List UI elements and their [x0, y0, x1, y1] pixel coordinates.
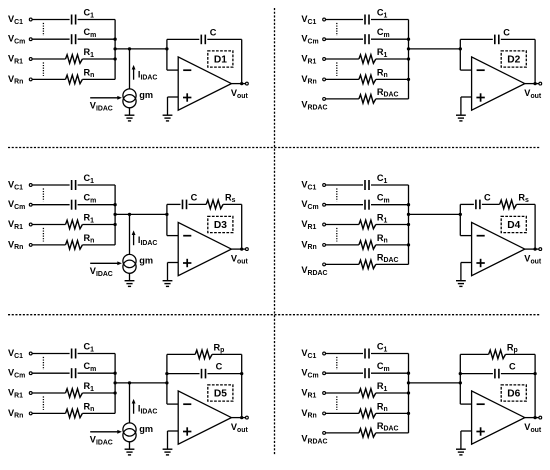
wire Cm to bus (D6) — [371, 372, 409, 374]
svg-text:C: C — [210, 27, 217, 37]
wire VR1 to element (D3) — [32, 224, 65, 226]
capacitor Cm (D2) — [364, 34, 366, 44]
wire VCm to element (D4) — [326, 204, 364, 206]
ground below gm source (D1) — [129, 108, 131, 115]
capacitor C1 (D1) — [71, 15, 73, 25]
input bus wire (D1) — [114, 20, 116, 80]
output wire (D4) — [525, 248, 539, 250]
resistor Rn (D4) — [359, 241, 376, 250]
svg-text:D1: D1 — [214, 55, 227, 66]
resistor Rn (D5) — [66, 409, 83, 418]
wire to inverting input (D6) — [460, 403, 471, 405]
wire VC1 to element (D1) — [32, 19, 70, 21]
feedback junction left (D5) — [165, 372, 168, 375]
plus sign (D5) — [183, 431, 191, 433]
wire R1 to bus (D6) — [376, 392, 409, 394]
feedback resistor Rp wire (D6) — [460, 353, 488, 355]
minus sign (D1) — [183, 69, 191, 71]
output terminal (D2) — [539, 82, 542, 85]
summing node wire (D5) — [115, 382, 167, 384]
op-amp D1 — [178, 57, 231, 110]
wire VR1 to element (D1) — [32, 58, 65, 60]
junction to gm source (D3) — [128, 213, 131, 216]
ellipsis dots between VC1 and VCm (D4) — [336, 188, 338, 201]
op-amp D4 — [472, 222, 525, 275]
wire VCm to element (D5) — [32, 372, 70, 374]
wire R1 to bus (D1) — [82, 58, 115, 60]
minus sign (D3) — [183, 235, 191, 237]
resistor RDAC (D6) — [359, 429, 376, 438]
wire RDAC to bus (D2) — [376, 98, 409, 100]
output terminal (D6) — [539, 416, 542, 419]
transconductor gm source (D1) — [123, 89, 136, 102]
bus junction (D2) — [407, 78, 410, 81]
wire VCm to element (D6) — [326, 372, 364, 374]
wire Rn to bus (D4) — [376, 244, 409, 246]
wire VC1 to element (D5) — [32, 353, 70, 355]
capacitor C1 (D2) — [364, 15, 366, 25]
svg-text:C: C — [503, 27, 510, 37]
bus junction (D3) — [113, 223, 116, 226]
wire to non-inverting input (D1) — [168, 96, 179, 98]
op-amp D6 — [472, 391, 525, 444]
ground at non-inverting input (D5) — [163, 448, 173, 450]
wire to non-inverting input (D3) — [168, 262, 179, 264]
feedback wire top (D3) — [167, 203, 181, 205]
feedback wire left vertical (D2) — [459, 39, 461, 70]
wire R1 to bus (D3) — [82, 224, 115, 226]
current arrow IIDAC (D3) — [133, 234, 135, 245]
op-amp D3 — [178, 222, 231, 275]
wire C1 to bus (D3) — [78, 184, 116, 186]
resistor R1 (D4) — [359, 220, 376, 229]
summing node wire (D1) — [115, 48, 167, 50]
capacitor C1 (D6) — [364, 349, 366, 359]
wire Rn to bus (D6) — [376, 412, 409, 414]
feedback resistor Rs (D4) — [500, 200, 517, 209]
svg-text:D6: D6 — [507, 389, 520, 400]
wire VR1 to element (D4) — [326, 224, 359, 226]
output feedback junction (D6) — [533, 416, 536, 419]
feedback wire top (D4) — [460, 203, 474, 205]
resistor R1 (D2) — [359, 55, 376, 64]
output wire (D5) — [231, 417, 245, 419]
ground at non-inverting input (D1) — [163, 114, 173, 116]
plus sign (D4) — [476, 262, 484, 264]
wire VRn to element (D3) — [32, 244, 65, 246]
bus junction (D4) — [407, 243, 410, 246]
minus sign (D2) — [477, 69, 485, 71]
dashed box label D5 — [208, 385, 233, 401]
ellipsis dots between VC1 and VCm (D1) — [42, 23, 44, 36]
feedback capacitor C wire (D6) — [460, 373, 493, 375]
input bus wire (D6) — [408, 354, 410, 433]
bus junction at summing wire (D4) — [407, 213, 410, 216]
op-amp D5 — [178, 391, 231, 444]
ellipsis dots between VC1 and VCm (D3) — [42, 188, 44, 201]
ground at non-inverting input (D3) — [163, 280, 173, 282]
wire to non-inverting input (D6) — [461, 430, 472, 432]
ground below gm source (D5) — [129, 442, 131, 449]
summing node junction (D3) — [165, 213, 168, 216]
output wire (D2) — [525, 83, 539, 85]
wire VRDAC to element (D2) — [326, 98, 359, 100]
ellipsis dots between VR1 and VRn (D6) — [336, 396, 338, 410]
bus junction (D2) — [407, 38, 410, 41]
capacitor Cm (D5) — [71, 368, 73, 378]
feedback wire right vertical (D1) — [241, 39, 243, 83]
input bus wire (D5) — [114, 354, 116, 414]
wire R1 to bus (D4) — [376, 224, 409, 226]
junction to gm source (D5) — [128, 381, 131, 384]
svg-text:C: C — [216, 362, 223, 372]
svg-text:D4: D4 — [507, 220, 520, 231]
wire Rn to bus (D1) — [82, 78, 115, 80]
bus junction at summing wire (D6) — [407, 381, 410, 384]
bus junction (D4) — [407, 223, 410, 226]
resistor Rn (D6) — [359, 409, 376, 418]
wire C1 to bus (D6) — [371, 353, 409, 355]
resistor Rn (D1) — [66, 75, 83, 84]
plus sign (D6) — [476, 431, 484, 433]
bus junction at summing wire (D2) — [407, 47, 410, 50]
output feedback junction (D1) — [240, 82, 243, 85]
resistor Rn (D3) — [66, 241, 83, 250]
feedback wire left vertical (D5) — [166, 354, 168, 404]
VIDAC input arrow (D3) — [90, 262, 117, 264]
bus junction (D2) — [407, 57, 410, 60]
wire VC1 to element (D2) — [326, 19, 364, 21]
ground at non-inverting input (D6) — [456, 448, 466, 450]
resistor R1 (D5) — [66, 389, 83, 398]
summing node wire (D6) — [409, 382, 461, 384]
current arrow IIDAC (D5) — [133, 403, 135, 414]
bus junction (D3) — [113, 203, 116, 206]
wire to non-inverting input (D4) — [461, 262, 472, 264]
feedback capacitor C (D5) — [201, 369, 203, 379]
wire Rn to bus (D5) — [82, 412, 115, 414]
wire VRn to element (D1) — [32, 78, 65, 80]
wire VCm to element (D1) — [32, 38, 70, 40]
feedback resistor Rp wire (D5) — [167, 353, 195, 355]
wire to inverting input (D2) — [460, 69, 471, 71]
transconductor gm source (D5) — [123, 423, 136, 436]
output terminal (D1) — [246, 82, 249, 85]
feedback junction left (D6) — [459, 372, 462, 375]
output terminal (D4) — [539, 248, 542, 251]
wire VRn to element (D6) — [326, 412, 359, 414]
ellipsis dots between VR1 and VRn (D3) — [42, 228, 44, 242]
input bus wire (D2) — [408, 20, 410, 99]
capacitor Cm (D4) — [364, 200, 366, 210]
wire Cm to bus (D3) — [78, 204, 116, 206]
feedback wire right vertical (D5) — [241, 354, 243, 417]
bus junction at summing wire (D3) — [113, 213, 116, 216]
input bus wire (D4) — [408, 185, 410, 264]
bus junction (D6) — [407, 391, 410, 394]
summing node junction (D5) — [165, 381, 168, 384]
wire VRn to element (D2) — [326, 78, 359, 80]
horizontal dashed divider between row 2 and row 3 — [8, 314, 540, 316]
svg-text:gm: gm — [139, 256, 153, 266]
wire Cm to bus (D2) — [371, 38, 409, 40]
bus junction (D1) — [113, 38, 116, 41]
dashed box label D2 — [501, 51, 526, 67]
wire to inverting input (D5) — [167, 403, 178, 405]
horizontal dashed divider between row 1 and row 2 — [8, 147, 540, 149]
wire to non-inverting input (D5) — [168, 430, 179, 432]
ground below gm source (D3) — [129, 273, 131, 280]
VIDAC input arrow (D1) — [90, 97, 117, 99]
capacitor C1 (D5) — [71, 349, 73, 359]
output wire (D1) — [231, 83, 245, 85]
summing node wire (D3) — [115, 213, 167, 215]
plus sign (D2) — [476, 97, 484, 99]
summing node junction (D6) — [459, 381, 462, 384]
wire VRDAC to element (D6) — [326, 432, 359, 434]
wire Cm to bus (D1) — [78, 38, 116, 40]
svg-text:D2: D2 — [507, 55, 520, 66]
ground at non-inverting input (D4) — [456, 280, 466, 282]
dashed box label D4 — [501, 216, 526, 232]
wire VR1 to element (D5) — [32, 392, 65, 394]
feedback capacitor C (D4) — [475, 200, 477, 210]
feedback wire right vertical (D6) — [534, 354, 536, 417]
feedback capacitor C (D3) — [182, 200, 184, 210]
wire RDAC to bus (D6) — [376, 432, 409, 434]
ellipsis dots between VC1 and VCm (D6) — [336, 357, 338, 370]
minus sign (D4) — [477, 235, 485, 237]
wire VCm to element (D2) — [326, 38, 364, 40]
wire VRDAC to element (D4) — [326, 263, 359, 265]
junction to gm source (D1) — [128, 47, 131, 50]
wire to non-inverting input (D2) — [461, 96, 472, 98]
wire VCm to element (D3) — [32, 204, 70, 206]
feedback wire top (D2) — [460, 38, 493, 40]
bus junction at summing wire (D5) — [113, 381, 116, 384]
wire to inverting input (D1) — [167, 69, 178, 71]
wire Rn to bus (D2) — [376, 78, 409, 80]
wire R1 to bus (D5) — [82, 392, 115, 394]
ellipsis dots between VC1 and VCm (D5) — [42, 357, 44, 370]
output feedback junction (D5) — [240, 416, 243, 419]
summing node junction (D2) — [459, 47, 462, 50]
output terminal (D3) — [246, 248, 249, 251]
svg-text:gm: gm — [139, 424, 153, 434]
capacitor C1 (D4) — [364, 180, 366, 190]
wire VRn to element (D5) — [32, 412, 65, 414]
current arrow IIDAC (D1) — [133, 69, 135, 80]
resistor RDAC (D2) — [359, 95, 376, 104]
feedback wire right (D3) — [223, 203, 242, 205]
VIDAC input arrow (D5) — [90, 431, 117, 433]
plus sign (D3) — [183, 262, 191, 264]
capacitor Cm (D6) — [364, 368, 366, 378]
feedback capacitor C (D6) — [494, 369, 496, 379]
op-amp D2 — [472, 57, 525, 110]
wire C1 to bus (D4) — [371, 184, 409, 186]
capacitor C1 (D3) — [71, 180, 73, 190]
resistor Rn (D2) — [359, 75, 376, 84]
ellipsis dots between VR1 and VRn (D1) — [42, 62, 44, 76]
ellipsis dots between VC1 and VCm (D2) — [336, 23, 338, 36]
wire VC1 to element (D3) — [32, 184, 70, 186]
resistor RDAC (D4) — [359, 260, 376, 269]
svg-text:C: C — [484, 192, 491, 202]
wire Cm to bus (D5) — [78, 372, 116, 374]
output wire (D6) — [525, 417, 539, 419]
feedback junction right (D6) — [533, 372, 536, 375]
svg-text:D3: D3 — [214, 220, 227, 231]
bus junction (D6) — [407, 412, 410, 415]
wire to inverting input (D4) — [460, 235, 471, 237]
bus junction (D5) — [113, 391, 116, 394]
minus sign (D6) — [477, 403, 485, 405]
wire VC1 to element (D4) — [326, 184, 364, 186]
dashed box label D1 — [208, 51, 233, 67]
wire C1 to bus (D5) — [78, 353, 116, 355]
output wire (D3) — [231, 248, 245, 250]
vertical dashed divider between columns — [274, 8, 276, 456]
output feedback junction (D3) — [240, 247, 243, 250]
wire VR1 to element (D6) — [326, 392, 359, 394]
svg-text:gm: gm — [139, 90, 153, 100]
wire VR1 to element (D2) — [326, 58, 359, 60]
ellipsis dots between VR1 and VRn (D5) — [42, 396, 44, 410]
plus sign (D1) — [183, 97, 191, 99]
wire to inverting input (D3) — [167, 235, 178, 237]
wire C1 to bus (D1) — [78, 19, 116, 21]
output feedback junction (D2) — [533, 82, 536, 85]
feedback wire right vertical (D2) — [534, 39, 536, 83]
wire to gm source (D5) — [129, 383, 131, 423]
bus junction (D1) — [113, 57, 116, 60]
ellipsis dots between VR1 and VRn (D4) — [336, 228, 338, 242]
feedback wire left vertical (D3) — [166, 204, 168, 235]
minus sign (D5) — [183, 403, 191, 405]
bus junction at summing wire (D1) — [113, 47, 116, 50]
summing node wire (D4) — [409, 213, 461, 215]
feedback wire left vertical (D4) — [459, 204, 461, 235]
feedback capacitor C wire (D5) — [167, 373, 200, 375]
wire Cm to bus (D4) — [371, 204, 409, 206]
output terminal (D5) — [246, 416, 249, 419]
wire VRn to element (D4) — [326, 244, 359, 246]
svg-text:C: C — [509, 362, 516, 372]
wire RDAC to bus (D4) — [376, 263, 409, 265]
ellipsis dots between VR1 and VRn (D2) — [336, 62, 338, 76]
feedback capacitor C (D2) — [494, 35, 496, 45]
feedback wire left vertical (D6) — [459, 354, 461, 404]
resistor R1 (D3) — [66, 220, 83, 229]
wire R1 to bus (D2) — [376, 58, 409, 60]
wire C1 to bus (D2) — [371, 19, 409, 21]
bus junction (D6) — [407, 372, 410, 375]
feedback junction right (D5) — [240, 372, 243, 375]
feedback resistor Rp (D5) — [195, 350, 212, 359]
summing node junction (D1) — [165, 47, 168, 50]
dashed box label D3 — [208, 216, 233, 232]
feedback wire top (D1) — [167, 38, 199, 40]
resistor R1 (D1) — [66, 55, 83, 64]
feedback resistor Rp (D6) — [489, 350, 506, 359]
output feedback junction (D4) — [533, 247, 536, 250]
wire VC1 to element (D6) — [326, 353, 364, 355]
feedback resistor Rs (D3) — [206, 200, 223, 209]
dashed box label D6 — [501, 385, 526, 401]
svg-text:C: C — [191, 192, 198, 202]
summing node junction (D4) — [459, 213, 462, 216]
transconductor gm source (D3) — [123, 254, 136, 267]
feedback wire left vertical (D1) — [166, 39, 168, 70]
wire Rn to bus (D3) — [82, 244, 115, 246]
resistor R1 (D6) — [359, 389, 376, 398]
svg-text:D5: D5 — [214, 389, 227, 400]
bus junction (D5) — [113, 372, 116, 375]
feedback wire right (D4) — [517, 203, 536, 205]
wire to gm source (D1) — [129, 49, 131, 89]
wire to gm source (D3) — [129, 214, 131, 254]
bus junction (D4) — [407, 203, 410, 206]
feedback capacitor C (D1) — [200, 35, 202, 45]
capacitor Cm (D1) — [71, 34, 73, 44]
ground at non-inverting input (D2) — [456, 114, 466, 116]
capacitor Cm (D3) — [71, 200, 73, 210]
summing node wire (D2) — [409, 48, 461, 50]
input bus wire (D3) — [114, 185, 116, 245]
